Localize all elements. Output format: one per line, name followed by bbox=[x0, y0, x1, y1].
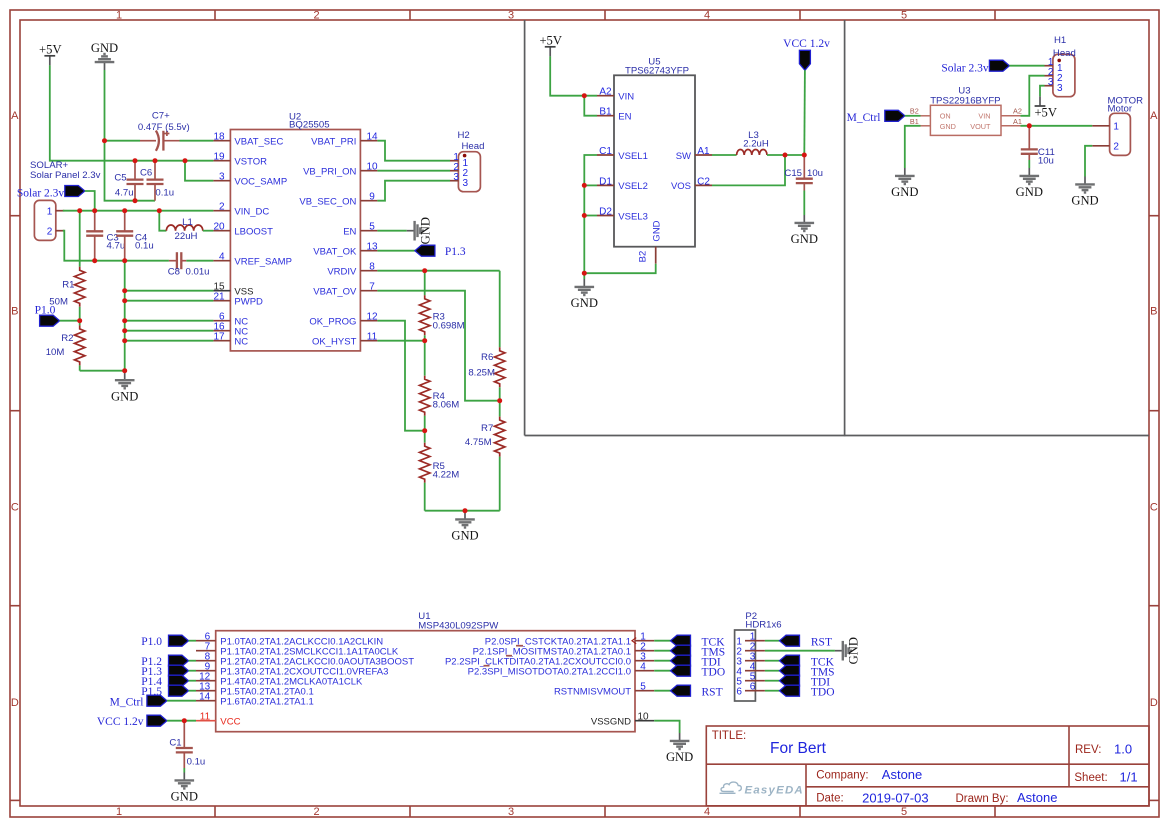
ground GND (U3) bbox=[895, 168, 915, 184]
junction VOC_SAMP branch bbox=[183, 158, 188, 163]
pin 1 of H2 bbox=[450, 160, 458, 162]
svg-text:14: 14 bbox=[199, 692, 211, 703]
svg-text:VSEL3: VSEL3 bbox=[618, 211, 648, 222]
svg-text:0.1u: 0.1u bbox=[155, 188, 174, 199]
wire VOUT to motor bbox=[1020, 125, 1092, 127]
svg-text:13: 13 bbox=[366, 242, 378, 253]
pin 10 VB_PRI_ON of U2 bbox=[360, 170, 377, 172]
pin 12 OK_PROG of U2 bbox=[360, 320, 377, 322]
wire SOLAR+ pin2 to VREF rail bbox=[63, 231, 169, 261]
wire VB_PRI_ON to H2 pin2 bbox=[377, 170, 450, 172]
junction divider GND bbox=[463, 508, 468, 513]
svg-text:ON: ON bbox=[940, 112, 951, 121]
svg-text:GND: GND bbox=[91, 41, 118, 55]
junction VRDIV/R3 bbox=[422, 268, 427, 273]
pin 5 of P2 bbox=[745, 680, 765, 682]
junction VOUT/C11 bbox=[1027, 123, 1032, 128]
svg-text:OK_PROG: OK_PROG bbox=[309, 317, 356, 328]
pin 2 of SOLAR+ bbox=[56, 230, 65, 232]
ground GND (EN pin) bbox=[407, 221, 423, 241]
svg-text:C6: C6 bbox=[140, 167, 152, 178]
net flag Solar 2.3v (right) bbox=[989, 60, 1009, 71]
pin 7 VBAT_OV of U2 bbox=[360, 290, 377, 292]
svg-text:NC: NC bbox=[234, 337, 248, 348]
svg-text:11: 11 bbox=[367, 332, 378, 343]
svg-text:C2: C2 bbox=[697, 176, 710, 187]
net flag P1.2 (bottom) bbox=[169, 655, 189, 666]
capacitor C6 0.1u bbox=[154, 161, 156, 180]
svg-text:Solar Panel 2.3v: Solar Panel 2.3v bbox=[30, 170, 101, 181]
svg-text:R6: R6 bbox=[481, 352, 493, 363]
pin 10 VSSGND of U1 bbox=[635, 720, 654, 722]
svg-text:VSSGND: VSSGND bbox=[591, 717, 631, 728]
pin 5 EN of U2 bbox=[360, 230, 377, 232]
wire VIN up to H1 pin2 bbox=[1020, 76, 1044, 116]
junction C4 bottom bbox=[122, 258, 127, 263]
svg-text:+5V: +5V bbox=[1034, 106, 1057, 120]
svg-text:10: 10 bbox=[366, 162, 378, 173]
wire +5V to VIN bbox=[550, 56, 597, 95]
svg-text:4.7u: 4.7u bbox=[107, 241, 126, 252]
wire R2 bottom to GND bbox=[80, 370, 125, 372]
power flag +5V (right, inverted) bbox=[1035, 96, 1046, 106]
wire OK_PROG to R4/R5 node bbox=[377, 321, 424, 431]
svg-text:4: 4 bbox=[219, 252, 225, 263]
svg-text:B: B bbox=[11, 306, 18, 318]
pin 8 P1.2 of U1 bbox=[196, 660, 216, 662]
svg-text:TPS62743YFP: TPS62743YFP bbox=[625, 65, 689, 76]
section divider line (power section) bbox=[524, 20, 526, 436]
wire VOS feedback bbox=[712, 155, 785, 185]
svg-text:Date:: Date: bbox=[816, 793, 844, 805]
ground GND (under divider) bbox=[124, 371, 126, 373]
pin 15 VSS of U2 bbox=[213, 290, 230, 292]
junction VSS bbox=[122, 288, 127, 293]
ground GND (C15) bbox=[795, 215, 815, 231]
svg-text:TPS22916BYFP: TPS22916BYFP bbox=[930, 96, 1000, 107]
svg-text:H2: H2 bbox=[458, 130, 470, 141]
net flag M_Ctrl (right) bbox=[885, 110, 905, 121]
svg-text:D: D bbox=[11, 697, 19, 709]
pin 8 VRDIV of U2 bbox=[360, 270, 377, 272]
pin 14 P1.6 of U1 bbox=[196, 700, 216, 702]
wire P2 pin3 to TCK bbox=[765, 660, 780, 662]
svg-text:REV:: REV: bbox=[1075, 744, 1101, 756]
junction NC6 bbox=[122, 318, 127, 323]
inductor L3 2.2uH bbox=[737, 150, 767, 155]
svg-text:3: 3 bbox=[1057, 83, 1063, 94]
wire VSEL rail bbox=[584, 155, 655, 273]
pin 1 of H1 bbox=[1045, 65, 1053, 67]
wire VSS bbox=[125, 290, 214, 292]
svg-text:VCC 1.2v: VCC 1.2v bbox=[783, 38, 830, 50]
switch U3 TPS22916BYFP body bbox=[930, 105, 1001, 135]
svg-text:2019-07-03: 2019-07-03 bbox=[862, 790, 929, 805]
wire P1.0 bbox=[189, 640, 197, 642]
pin 7 P1.1 of U1 bbox=[196, 650, 216, 652]
svg-text:22uH: 22uH bbox=[175, 231, 198, 242]
svg-text:VCC 1.2v: VCC 1.2v bbox=[97, 716, 144, 728]
svg-text:10u: 10u bbox=[1038, 155, 1054, 166]
svg-text:VREF_SAMP: VREF_SAMP bbox=[234, 257, 292, 268]
svg-text:EN: EN bbox=[343, 227, 356, 238]
svg-text:M_Ctrl: M_Ctrl bbox=[847, 112, 881, 124]
wire P2 pin2 to GND bbox=[765, 650, 835, 652]
pin 21 PWPD of U2 bbox=[213, 300, 230, 302]
resistor R6 8.25M bbox=[495, 347, 505, 387]
wire GND down to C5/C6 bottoms bbox=[105, 70, 156, 201]
svg-text:B1: B1 bbox=[910, 117, 919, 126]
junction VCC/C1 bbox=[182, 718, 187, 723]
svg-text:BQ25505: BQ25505 bbox=[289, 120, 330, 131]
svg-text:RST: RST bbox=[702, 686, 723, 698]
wire U3 GND pin bbox=[905, 126, 921, 168]
svg-text:11: 11 bbox=[200, 712, 211, 723]
svg-text:3: 3 bbox=[219, 172, 225, 183]
svg-text:1/1: 1/1 bbox=[1120, 770, 1138, 785]
pin 11 OK_HYST of U2 bbox=[360, 340, 377, 342]
svg-text:GND: GND bbox=[1016, 185, 1043, 199]
svg-text:RST: RST bbox=[811, 636, 832, 648]
svg-text:GND: GND bbox=[666, 750, 693, 764]
junction C4 top bbox=[122, 208, 127, 213]
op-amp U2 BQ25505 body bbox=[230, 130, 360, 351]
net flag P1.0 (bottom) bbox=[169, 635, 189, 646]
svg-text:3: 3 bbox=[463, 178, 469, 189]
resistor R7 4.75M bbox=[499, 401, 501, 417]
pin 2 of H1 bbox=[1045, 75, 1053, 77]
capacitor C4 0.1u bbox=[124, 211, 126, 232]
net flag RST (P2) bbox=[780, 635, 800, 646]
junction VIN/EN branch bbox=[582, 93, 587, 98]
pin 1 of SOLAR+ bbox=[56, 210, 65, 212]
net flag TCK (P2) bbox=[780, 655, 800, 666]
svg-text:A: A bbox=[11, 110, 19, 122]
svg-text:Company:: Company: bbox=[816, 770, 868, 782]
svg-text:VOC_SAMP: VOC_SAMP bbox=[234, 177, 287, 188]
svg-text:8.25M: 8.25M bbox=[468, 367, 495, 378]
wire NC6 bbox=[125, 320, 214, 322]
svg-text:For Bert: For Bert bbox=[770, 740, 827, 757]
net flag P1.5 (bottom) bbox=[169, 685, 189, 696]
svg-text:6: 6 bbox=[750, 682, 756, 693]
svg-text:A2: A2 bbox=[599, 87, 612, 98]
svg-text:20: 20 bbox=[213, 222, 225, 233]
wire P1.0 to divider bbox=[60, 320, 80, 322]
connector P2 HDR1x6 bbox=[735, 630, 756, 701]
wire VSEL3 branch bbox=[584, 215, 597, 217]
svg-text:C8: C8 bbox=[168, 267, 180, 278]
pin 3 of H2 bbox=[450, 180, 458, 182]
wire OK_HYST to R3/R4 node bbox=[377, 340, 424, 342]
ground GND (motor) bbox=[1075, 177, 1095, 193]
svg-text:2: 2 bbox=[1113, 142, 1119, 153]
net flag TDI (U1) bbox=[671, 655, 691, 666]
svg-text:LBOOST: LBOOST bbox=[234, 227, 273, 238]
pin 1 of MOTOR bbox=[1092, 125, 1109, 127]
pin 3 P2.2SP of U1 bbox=[635, 660, 654, 662]
svg-text:5: 5 bbox=[901, 806, 907, 818]
ground GND (VSSGND) bbox=[670, 733, 690, 749]
svg-text:0.1u: 0.1u bbox=[135, 241, 154, 252]
inductor L1 22uH bbox=[159, 211, 166, 231]
pin 9 VB_SEC_ON of U2 bbox=[360, 200, 377, 202]
pin 3 VOC_SAMP of U2 bbox=[213, 180, 230, 182]
pin 20 LBOOST of U2 bbox=[213, 230, 230, 232]
net flag P1.3 bbox=[415, 245, 435, 256]
svg-text:VB_SEC_ON: VB_SEC_ON bbox=[299, 197, 356, 208]
svg-text:B1: B1 bbox=[599, 107, 612, 118]
svg-text:5: 5 bbox=[640, 682, 646, 693]
ground GND (U5) bbox=[583, 273, 585, 279]
pin 18 VBAT_SEC of U2 bbox=[213, 140, 230, 142]
pin A2 VIN of U3 bbox=[1001, 115, 1020, 117]
svg-text:21: 21 bbox=[213, 292, 225, 303]
pin 1 P2.0SP of U1 bbox=[635, 640, 654, 642]
junction VCC/C15 bbox=[802, 153, 807, 158]
svg-text:9: 9 bbox=[369, 192, 375, 203]
svg-text:VBAT_SEC: VBAT_SEC bbox=[234, 137, 283, 148]
junction C5 top bbox=[133, 158, 138, 163]
capacitor C15 10u bbox=[803, 155, 805, 179]
svg-text:Solar 2.3v: Solar 2.3v bbox=[941, 62, 989, 74]
pin 6 P1.0 of U1 bbox=[196, 640, 216, 642]
net flag M_Ctrl (bottom) bbox=[147, 695, 167, 706]
pin 6 of P2 bbox=[745, 690, 765, 692]
svg-text:2: 2 bbox=[313, 10, 319, 22]
wire M_Ctrl to pin14 bbox=[167, 700, 196, 702]
svg-text:RSTNMISVMOUT: RSTNMISVMOUT bbox=[554, 687, 631, 698]
resistor R2 10M bbox=[79, 321, 81, 326]
svg-text:P1.0: P1.0 bbox=[35, 305, 56, 317]
svg-text:VBAT_PRI: VBAT_PRI bbox=[311, 137, 356, 148]
svg-text:3: 3 bbox=[453, 172, 459, 183]
svg-text:D1: D1 bbox=[599, 176, 612, 187]
wire pin to RST flag bbox=[654, 690, 670, 692]
pin A1 SW of U5 bbox=[695, 154, 712, 156]
wire P1.3 bbox=[189, 670, 197, 672]
wire VBAT_OV to R6/R7 node bbox=[377, 291, 499, 401]
svg-text:Drawn By:: Drawn By: bbox=[956, 793, 1009, 805]
net flag TCK (U1) bbox=[671, 635, 691, 646]
svg-text:B: B bbox=[1150, 306, 1157, 318]
overline row2 MOSI bbox=[516, 645, 523, 647]
junction R1 top bbox=[77, 208, 82, 213]
svg-text:A1: A1 bbox=[1013, 117, 1022, 126]
svg-text:VCC: VCC bbox=[220, 717, 240, 728]
svg-text:10M: 10M bbox=[46, 347, 65, 358]
pin 4 VREF_SAMP of U2 bbox=[213, 260, 230, 262]
pin 2 VIN_DC of U2 bbox=[213, 210, 230, 212]
svg-text:VSTOR: VSTOR bbox=[234, 157, 267, 168]
net flag RST (U1) bbox=[671, 685, 691, 696]
svg-text:8.06M: 8.06M bbox=[433, 400, 460, 411]
svg-text:A2: A2 bbox=[1013, 107, 1022, 116]
svg-text:0.01u: 0.01u bbox=[186, 267, 210, 278]
power flag +5V (left) bbox=[44, 56, 55, 66]
svg-text:R2: R2 bbox=[61, 333, 73, 344]
connector H2 Head bbox=[458, 152, 480, 192]
svg-text:1: 1 bbox=[1113, 122, 1119, 133]
clock marker pin1 U1 bbox=[632, 638, 636, 644]
wire pin to TCK flag bbox=[654, 640, 670, 642]
svg-text:VB_PRI_ON: VB_PRI_ON bbox=[303, 167, 356, 178]
svg-text:C: C bbox=[11, 502, 19, 514]
svg-text:GND: GND bbox=[171, 790, 198, 804]
net flag P1.0 (left) bbox=[40, 315, 60, 326]
svg-text:B2: B2 bbox=[910, 107, 919, 116]
regulator U5 TPS62743YFP body bbox=[614, 75, 695, 246]
section divider bottom line bbox=[525, 435, 1149, 437]
svg-text:C: C bbox=[1150, 502, 1158, 514]
svg-text:SW: SW bbox=[676, 151, 691, 162]
connector H1 Head bbox=[1053, 54, 1075, 96]
svg-text:0.698M: 0.698M bbox=[433, 320, 465, 331]
resistor R1 50M bbox=[79, 211, 81, 267]
wire P1.5 bbox=[189, 690, 197, 692]
wire P1.4 bbox=[189, 680, 197, 682]
svg-text:14: 14 bbox=[366, 132, 378, 143]
svg-text:+5V: +5V bbox=[539, 33, 562, 47]
svg-text:VOS: VOS bbox=[671, 181, 691, 192]
wire SW to L3 bbox=[712, 154, 737, 156]
pin 12 P1.4 of U1 bbox=[196, 680, 216, 682]
svg-text:A1: A1 bbox=[697, 146, 710, 157]
net flag TDO (P2) bbox=[780, 685, 800, 696]
svg-text:3: 3 bbox=[1048, 77, 1054, 88]
wire P2 pin6 to TDO bbox=[765, 690, 780, 692]
svg-text:P2.3SPI_MISOTDOTA0.2TA1.2CCI1.: P2.3SPI_MISOTDOTA0.2TA1.2CCI1.0 bbox=[468, 667, 631, 678]
svg-text:VOUT: VOUT bbox=[970, 122, 991, 131]
svg-text:GND: GND bbox=[419, 217, 433, 244]
connector MOTOR Motor bbox=[1110, 113, 1131, 155]
pin 3 of P2 bbox=[745, 660, 765, 662]
connector SOLAR+ solar panel bbox=[34, 200, 55, 240]
net flag TMS (P2) bbox=[780, 665, 800, 676]
wire P2 pin1 to RST bbox=[765, 640, 780, 642]
wire VSS/PWPD/NC bus vertical bbox=[124, 261, 126, 371]
wire VCC bbox=[167, 720, 196, 722]
svg-text:Astone: Astone bbox=[882, 767, 922, 782]
wire pin to TMS flag bbox=[654, 650, 670, 652]
wire pin to TDI flag bbox=[654, 660, 670, 662]
junction VOS sense bbox=[783, 153, 788, 158]
pin 13 VBAT_OK of U2 bbox=[360, 250, 377, 252]
pin 3 of H1 bbox=[1045, 85, 1053, 87]
pin D1 VSEL2 of U5 bbox=[597, 184, 614, 186]
pin C2 VOS of U5 bbox=[695, 184, 712, 186]
svg-text:GND: GND bbox=[847, 637, 861, 664]
wire pin to TDO flag bbox=[654, 670, 670, 672]
svg-text:12: 12 bbox=[366, 312, 378, 323]
wire VOC_SAMP bbox=[185, 161, 213, 181]
svg-text:M_Ctrl: M_Ctrl bbox=[110, 697, 144, 709]
svg-text:1.0: 1.0 bbox=[1114, 742, 1132, 757]
svg-text:A: A bbox=[1150, 110, 1158, 122]
wire P1.2 bbox=[189, 660, 197, 662]
pin B2 GND of U5 bbox=[655, 247, 657, 264]
wire H1 pin3 to +5V bbox=[1040, 86, 1045, 97]
net flag VCC 1.2v (bottom) bbox=[147, 715, 167, 726]
resistor R3 0.698M bbox=[424, 271, 426, 296]
pin 13 P1.5 of U1 bbox=[196, 690, 216, 692]
pin A1 VOUT of U3 bbox=[1001, 125, 1020, 127]
svg-text:D2: D2 bbox=[599, 207, 612, 218]
wire MOTOR pin2 to GND bbox=[1085, 146, 1092, 177]
svg-text:7: 7 bbox=[369, 282, 375, 293]
wire VSSGND to GND bbox=[654, 721, 679, 733]
svg-text:1: 1 bbox=[116, 806, 122, 818]
junction C3 bottom bbox=[92, 258, 97, 263]
svg-text:2: 2 bbox=[47, 227, 53, 238]
junction C3 top / solar bbox=[92, 208, 97, 213]
svg-text:0.1u: 0.1u bbox=[187, 757, 206, 768]
mcu U1 MSP430L092SPW body bbox=[216, 631, 635, 732]
svg-text:Sheet:: Sheet: bbox=[1074, 772, 1107, 784]
net flag TDO (U1) bbox=[671, 665, 691, 676]
svg-text:4.22M: 4.22M bbox=[433, 470, 460, 481]
svg-text:2: 2 bbox=[219, 202, 225, 213]
wire VRDIV down to R6 bbox=[499, 271, 501, 348]
junction C7/GND net bbox=[102, 138, 107, 143]
svg-text:VIN: VIN bbox=[978, 112, 990, 121]
svg-text:B2: B2 bbox=[638, 251, 649, 263]
svg-text:VSEL1: VSEL1 bbox=[618, 151, 648, 162]
wire Solar flag to VIN_DC bbox=[85, 191, 95, 211]
ground GND (top left) bbox=[95, 54, 115, 70]
svg-text:4: 4 bbox=[704, 806, 710, 818]
svg-text:8: 8 bbox=[369, 262, 375, 273]
capacitor C3 4.7u bbox=[94, 211, 96, 232]
svg-text:Solar 2.3v: Solar 2.3v bbox=[17, 188, 65, 200]
wire P2 pin5 to TDI bbox=[765, 680, 780, 682]
svg-text:P1.0: P1.0 bbox=[141, 636, 162, 648]
overline row3 TDI bbox=[506, 655, 512, 657]
pin 4 P2.3SP of U1 bbox=[635, 670, 654, 672]
pin D2 VSEL3 of U5 bbox=[597, 215, 614, 217]
pin 2 P2.1SP of U1 bbox=[635, 650, 654, 652]
svg-text:P1.3: P1.3 bbox=[445, 246, 466, 258]
net flag TMS (U1) bbox=[671, 645, 691, 656]
svg-text:VBAT_OV: VBAT_OV bbox=[313, 287, 357, 298]
svg-text:Astone: Astone bbox=[1017, 790, 1057, 805]
pin 1 of P2 bbox=[745, 640, 765, 642]
svg-text:6: 6 bbox=[736, 687, 742, 698]
svg-text:TITLE:: TITLE: bbox=[712, 730, 747, 742]
svg-text:VBAT_OK: VBAT_OK bbox=[313, 247, 357, 258]
wire VB_SEC_ON to H2 pin3 bbox=[377, 181, 450, 201]
svg-text:1: 1 bbox=[47, 207, 53, 218]
pin 6 NC of U2 bbox=[213, 320, 230, 322]
section divider line (motor section) bbox=[844, 20, 846, 436]
svg-text:MSP430L092SPW: MSP430L092SPW bbox=[418, 620, 499, 631]
ground GND (C1) bbox=[175, 773, 195, 789]
pin1 marker H2 bbox=[463, 154, 467, 158]
net flag P1.4 (bottom) bbox=[169, 675, 189, 686]
wire divider bottom to GND bbox=[425, 510, 500, 512]
pin 2 of P2 bbox=[745, 650, 765, 652]
wire VSEL2 branch bbox=[584, 184, 597, 186]
pin 5 RSTNMI of U1 bbox=[635, 690, 654, 692]
svg-text:VIN_DC: VIN_DC bbox=[234, 207, 269, 218]
svg-text:C1: C1 bbox=[169, 737, 181, 748]
svg-text:1: 1 bbox=[116, 10, 122, 22]
net flag Solar 2.3v (left) bbox=[65, 186, 85, 197]
svg-text:Motor: Motor bbox=[1108, 104, 1133, 115]
svg-text:R7: R7 bbox=[481, 423, 493, 434]
svg-text:GND: GND bbox=[451, 529, 478, 543]
capacitor C5 4.7u bbox=[134, 161, 136, 180]
